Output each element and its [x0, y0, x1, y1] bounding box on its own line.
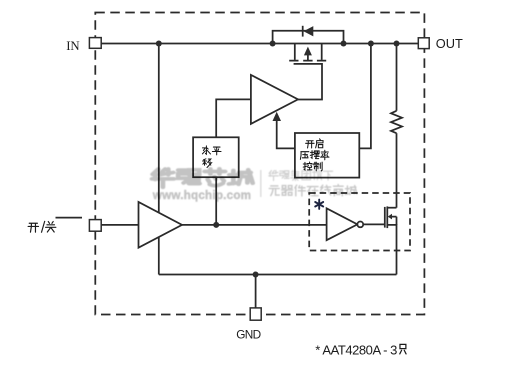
node: rail / diode left — [270, 41, 276, 47]
label ON/OFF (开/关) — [28, 221, 56, 233]
node: rail / slew branch — [368, 41, 374, 47]
node: buffer out / level shift — [213, 222, 219, 228]
wire: buffer bottom to lower rail — [158, 237, 160, 274]
NMOS Q1 channel bar — [386, 206, 388, 228]
pin GND pad — [250, 308, 261, 320]
node: lower rail / GND — [253, 272, 259, 278]
label 水平移 in level shift box — [202, 146, 221, 168]
node: rail / resistor branch — [394, 41, 400, 47]
arrowhead into upper amp — [273, 112, 282, 121]
node: rail / diode right — [341, 41, 347, 47]
PMOS M1 source stub — [294, 44, 296, 60]
asterisk in dashed box — [315, 200, 323, 209]
wire: inverter out to NMOS gate — [363, 223, 384, 225]
pin IN pad — [89, 38, 101, 49]
wire: ON/OFF pad to buffer input — [101, 224, 138, 226]
PMOS M1 contact bars — [289, 60, 326, 62]
wire: buffer output to inverter — [182, 224, 327, 226]
diode D1 branch wires — [273, 31, 344, 44]
svg-text:* AAT4280A - 3: * AAT4280A - 3 — [315, 342, 397, 357]
PMOS M1 drain stub — [321, 44, 323, 60]
slew rate control box — [295, 133, 359, 178]
diode D1 — [302, 26, 304, 37]
IC outer dashed boundary — [95, 13, 424, 315]
pads — [89, 38, 429, 321]
level shift box — [193, 137, 239, 177]
PMOS M1 body arrow — [307, 55, 309, 60]
wire: ON/OFF lead stub — [56, 217, 83, 219]
wire: rail down to resistor — [396, 44, 398, 111]
wire: slew-rate box right up to rail — [359, 44, 371, 149]
svg-text:www.hqchip.com: www.hqchip.com — [152, 189, 251, 202]
node: rail / buffer branch — [156, 41, 162, 47]
NMOS Q1 source stub and down wire — [387, 225, 396, 275]
wire: resistor to NMOS drain — [396, 133, 398, 208]
svg-text:IN: IN — [66, 39, 79, 53]
NMOS Q1 drain stub — [387, 207, 396, 209]
resistor R1 — [391, 111, 402, 133]
wire: vertical from rail into buffer top — [158, 44, 160, 213]
NMOS Q1 gate bar — [384, 207, 386, 228]
label 开启压摆率控制 in slew box — [300, 139, 329, 171]
inverter U3 — [327, 208, 358, 240]
wire: level-shift box up to upper amp input — [216, 99, 251, 137]
pin OUT pad — [418, 38, 429, 49]
svg-text:OUT: OUT — [436, 36, 463, 51]
wire: GND drop — [255, 275, 257, 309]
wire: level-shift box down to buffer output — [215, 177, 217, 225]
wire: top VIN-VOUT rail — [101, 43, 418, 45]
wire: lower horizontal rail — [159, 274, 397, 276]
buffer U2 (lower) — [139, 202, 183, 248]
op-amp U1 (upper) — [251, 75, 298, 124]
wire: upper amp output up to PMOS gate bar — [294, 64, 322, 100]
pin ON/OFF pad — [89, 220, 101, 232]
wire: slew-rate box left to amp arrow — [277, 121, 295, 149]
inner dashed box — [309, 193, 410, 251]
svg-text:GND: GND — [236, 328, 260, 342]
NMOS Q1 body arrow — [391, 217, 397, 225]
